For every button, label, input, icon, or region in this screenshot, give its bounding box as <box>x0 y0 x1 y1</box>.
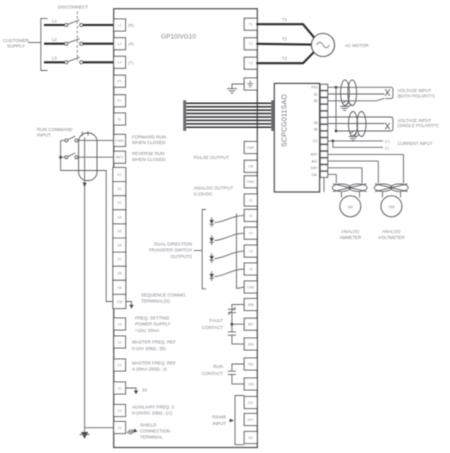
svg-text:GP10/VG10: GP10/VG10 <box>161 34 196 41</box>
option terminal label P10 <box>311 86 317 90</box>
junction fault common <box>230 323 233 326</box>
analog ammeter M2 <box>340 196 361 217</box>
svg-text:30B: 30B <box>248 303 255 307</box>
svg-text:T1: T1 <box>282 17 288 22</box>
wire output D4 to terminal <box>215 269 245 277</box>
terminal C1 (drive left, y=365.0) <box>114 359 126 371</box>
svg-text:L3: L3 <box>52 56 57 61</box>
label ANALOG VOLTMETER <box>378 229 405 240</box>
svg-text:ANALOGAMMETER: ANALOGAMMETER <box>339 229 361 240</box>
svg-text:Y5C: Y5C <box>247 362 254 366</box>
svg-text:L1: L1 <box>52 18 57 23</box>
terminal L1 (drive left, y=25.0) <box>114 19 126 31</box>
terminal N- (drive left, y=119.0) <box>114 113 126 125</box>
wire T2 to motor <box>256 43 312 46</box>
terminal 13 (drive left, y=324.0) <box>114 318 126 330</box>
svg-text:X9: X9 <box>117 286 121 290</box>
label T1 <box>282 17 288 22</box>
wire run-command common to terminal CM <box>61 171 113 302</box>
wire terminal G to earth <box>232 84 244 88</box>
svg-text:33: 33 <box>142 388 147 393</box>
svg-text:CM: CM <box>117 300 123 304</box>
terminal Y4 (drive right, y=269.0) <box>244 263 257 275</box>
switch run FWD <box>65 136 78 142</box>
terminal X3 (drive left, y=202.8) <box>113 196 126 210</box>
option terminal t10 <box>320 145 327 151</box>
wire to voltmeter terminal left <box>382 192 384 198</box>
wire T1 to motor <box>256 24 314 37</box>
svg-text:(R): (R) <box>128 23 134 28</box>
terminal X1 (drive left, y=174.6) <box>113 168 126 182</box>
svg-text:V2: V2 <box>117 409 121 413</box>
wire voltmeter left drop <box>377 161 379 183</box>
svg-text:X4: X4 <box>117 215 121 219</box>
terminal CM (drive right, y=166.3) <box>244 160 257 172</box>
svg-text:CME: CME <box>247 285 255 289</box>
wire REV switch to terminal REV <box>78 156 114 158</box>
disconnect switch pole L1 <box>65 20 83 27</box>
label RS485 INPUT <box>212 415 226 426</box>
svg-text:REVERSE RUNWHEN CLOSED: REVERSE RUNWHEN CLOSED <box>132 151 166 162</box>
terminal DX- (drive right, y=402.5) <box>244 397 257 409</box>
option terminal t4 <box>320 105 327 111</box>
svg-text:32: 32 <box>314 99 318 103</box>
label L3 <box>52 56 57 61</box>
svg-text:X5: X5 <box>117 229 121 233</box>
transfer switch output device D4 <box>209 271 214 281</box>
terminal T2 (drive right, y=43.8) <box>244 38 257 50</box>
terminal T1 (drive right, y=24.2) <box>244 18 257 30</box>
wire common tie vertical <box>335 87 337 131</box>
wire L3 disconnect to drive terminal <box>83 61 114 63</box>
cable oval terminal ticks <box>82 131 88 136</box>
wire L3 supply to disconnect <box>44 61 65 63</box>
cable 1 shield drain <box>342 100 352 107</box>
option terminal label 34 <box>314 128 318 132</box>
label SEQUENCE COMMON TERMINAL <box>141 293 187 304</box>
wire C1 to current input <box>328 140 383 142</box>
wire strip bottom to card edge <box>323 178 325 192</box>
terminal DX+ (drive right, y=419.5) <box>244 414 257 426</box>
earth ground at drive chassis <box>227 89 237 93</box>
junction on C1 wire <box>332 140 335 143</box>
label CURRENT INPUT <box>398 141 433 146</box>
terminal 12 (drive left, y=342.0) <box>114 336 126 348</box>
junction run command common <box>59 156 62 159</box>
terminal X2 (drive left, y=188.7) <box>113 182 126 196</box>
svg-text:DISCONNECT: DISCONNECT <box>58 5 89 10</box>
terminal G (drive right, y=84.0) <box>244 78 257 90</box>
svg-text:L1: L1 <box>118 23 122 27</box>
option terminal label 32 <box>314 99 318 103</box>
analog voltmeter M3 <box>381 196 402 217</box>
svg-text:DX-: DX- <box>248 401 254 405</box>
wire output D2 to terminal <box>215 233 245 240</box>
label DISCONNECT <box>58 5 89 10</box>
svg-text:CM: CM <box>248 165 253 169</box>
junction on return wire <box>335 130 338 133</box>
label VOLTAGE INPUT SINGLE POLARITY <box>398 118 440 128</box>
wire 33 loop top <box>328 116 391 118</box>
label REVERSE RUN WHEN CLOSED <box>132 151 166 162</box>
arrow symbol at CM terminal <box>126 302 134 309</box>
option terminal t5 <box>320 111 327 117</box>
terminal P+ (drive left, y=100.8) <box>114 95 126 107</box>
wire common to REV switch <box>61 156 65 158</box>
fault NC contact <box>228 307 236 324</box>
label AC MOTOR <box>345 43 369 48</box>
svg-text:AC MOTOR: AC MOTOR <box>345 43 369 48</box>
label DUAL DIRECTION TRANSFER SWITCH OUTPUTS <box>149 241 192 259</box>
wire 30B to contact <box>232 305 245 309</box>
label AUXILIARY FREQ 2 <box>132 404 175 415</box>
terminal 30C (drive right, y=324.2) <box>244 318 257 330</box>
label current plus <box>385 139 390 143</box>
terminal X6 (drive left, y=245.1) <box>113 238 126 252</box>
svg-text:Y4: Y4 <box>249 267 253 271</box>
svg-text:SCPCG011SAO: SCPCG011SAO <box>282 94 289 147</box>
svg-text:34: 34 <box>314 128 318 132</box>
svg-text:VOLTAGE INPUT(BOTH POLARITY): VOLTAGE INPUT(BOTH POLARITY) <box>398 88 436 98</box>
label T2 <box>282 37 288 42</box>
wire L1 supply to disconnect <box>44 24 65 26</box>
option card A1 outline <box>274 83 319 192</box>
wire FWD switch to terminal FWD <box>78 139 114 141</box>
svg-text:L2: L2 <box>118 42 122 46</box>
label CUSTOMER SUPPLY <box>3 38 30 49</box>
terminal X5 (drive left, y=231.0) <box>113 224 126 238</box>
terminal L3 (drive left, y=62.3) <box>114 56 126 68</box>
outputs grouping bracket <box>202 210 206 289</box>
phase annotation (R) <box>128 23 134 28</box>
wire AO+ to voltmeter right <box>328 153 404 155</box>
label ANALOG OUTPUT <box>194 185 234 196</box>
wire contact to 30A <box>232 343 245 345</box>
terminal 30A (drive right, y=344.0) <box>244 338 257 350</box>
wire outputs common to CME <box>237 287 245 289</box>
junction on P10 wire <box>335 86 338 89</box>
svg-text:P1: P1 <box>117 80 121 84</box>
wire to ammeter terminal right <box>359 192 361 198</box>
switch run REV <box>65 153 78 159</box>
terminal Y2 (drive right, y=233.2) <box>244 227 257 239</box>
svg-text:11: 11 <box>249 198 253 202</box>
svg-text:T1: T1 <box>249 23 253 27</box>
label MASTER FREQ REF current <box>132 360 176 371</box>
svg-text:CA-: CA- <box>312 173 318 177</box>
svg-text:RS485INPUT: RS485INPUT <box>212 415 226 426</box>
label L1 <box>52 18 57 23</box>
svg-text:Y3: Y3 <box>249 250 253 254</box>
pointer to RS485 bracket <box>230 419 235 423</box>
wire drain into shield terminal 12 <box>85 427 114 429</box>
wire L2 disconnect to drive terminal <box>83 43 114 45</box>
svg-text:30C: 30C <box>248 323 255 327</box>
svg-text:11: 11 <box>118 386 122 390</box>
terminal X4 (drive left, y=216.9) <box>113 210 126 224</box>
wire T3 to motor <box>256 52 314 63</box>
svg-text:X2: X2 <box>117 187 121 191</box>
phase annotation (S) <box>128 41 134 46</box>
svg-text:Y5A: Y5A <box>247 382 254 386</box>
cable 2 shield drain <box>351 131 360 138</box>
svg-text:Y2: Y2 <box>249 232 253 236</box>
svg-text:AUXILIARY FREQ. 20-10VDC 20kΩ: AUXILIARY FREQ. 20-10VDC 20kΩ ; (A) <box>132 404 175 415</box>
label FREQ SETTING POWER SUPPLY <box>135 316 171 333</box>
terminal FMA (drive right, y=181.8) <box>244 176 257 188</box>
terminal Y1 (drive right, y=215.4) <box>244 209 257 221</box>
wire 34 to input arrow 2 <box>328 123 385 125</box>
svg-text:SD: SD <box>248 436 253 440</box>
wire current input return <box>333 141 383 147</box>
phase annotation (T) <box>128 60 134 65</box>
option terminal t8 <box>320 131 327 137</box>
option terminal t9 <box>320 138 327 144</box>
label MASTER FREQ REF voltage <box>132 340 176 351</box>
label RUN CONTACT <box>202 364 224 376</box>
wire L2 supply to disconnect <box>44 43 65 45</box>
option terminal t13 <box>320 165 327 171</box>
shielded cable oval around FWD/REV wires <box>79 133 97 181</box>
option terminal label AO+ <box>311 153 318 157</box>
terminal CME (drive right, y=287.0) <box>244 281 257 293</box>
terminal Y5A (drive right, y=384.0) <box>244 378 257 390</box>
wire cable shield drain to shield terminal <box>84 138 86 434</box>
svg-text:DX+: DX+ <box>247 418 254 422</box>
svg-text:31: 31 <box>314 92 318 96</box>
svg-text:(S): (S) <box>128 41 134 46</box>
shield twist glyph near terminal 12 <box>127 429 138 435</box>
option terminal t2 <box>320 91 327 97</box>
wire common to FWD switch <box>61 139 65 141</box>
input plug loop both polarity <box>385 87 393 98</box>
option terminal t11 <box>320 151 327 157</box>
svg-text:T3: T3 <box>282 56 288 61</box>
label current minus <box>385 146 390 150</box>
shield chassis marker near bottom <box>80 432 90 439</box>
svg-text:FMP: FMP <box>247 146 255 150</box>
wire CA- to ammeter left <box>328 173 337 175</box>
svg-text:T2: T2 <box>249 42 253 46</box>
wire run contact to Y5A <box>232 383 245 385</box>
input crossing glyph single polarity <box>385 123 390 130</box>
terminal 30B (drive right, y=304.5) <box>244 299 257 311</box>
terminal CM (drive left, y=301.4) <box>113 294 126 308</box>
disconnect mechanical linkage (dashed) <box>76 12 78 61</box>
svg-text:FWD: FWD <box>116 139 125 143</box>
svg-text:REV: REV <box>116 156 124 160</box>
label SHIELD CONNECTION TERMINAL <box>140 422 170 439</box>
option terminal t7 <box>320 125 327 131</box>
option terminal label 33 <box>314 121 318 125</box>
terminal 11 (drive right, y=200.0) <box>244 194 257 206</box>
svg-text:X8: X8 <box>117 272 121 276</box>
twisted shielded cable 1 <box>341 80 357 106</box>
terminal 12 (drive left, y=427.5) <box>114 422 126 434</box>
label FAULT CONTACT <box>202 318 224 330</box>
option terminal label CA+ <box>311 166 318 170</box>
label ANALOG AMMETER <box>339 229 361 240</box>
svg-text:CA+: CA+ <box>311 166 318 170</box>
svg-text:X3: X3 <box>117 201 121 205</box>
transfer switch output device D2 <box>209 235 214 245</box>
wire P10 loop top <box>328 86 391 88</box>
terminal FMP (drive right, y=147.5) <box>244 142 257 154</box>
svg-text:30A: 30A <box>248 342 255 346</box>
svg-text:T2: T2 <box>282 37 288 42</box>
wire to voltmeter terminal right <box>400 192 402 198</box>
svg-text:(+): (+) <box>385 139 390 143</box>
customer supply bracket <box>41 19 48 71</box>
terminal L2 (drive left, y=43.7) <box>114 38 126 50</box>
transfer switch output device D1 <box>209 217 214 227</box>
disconnect switch pole L2 <box>65 39 83 46</box>
option terminal t14 <box>320 171 327 177</box>
svg-text:12: 12 <box>118 426 122 430</box>
label 33 tie point <box>142 388 147 393</box>
label VOLTAGE INPUT BOTH POLARITY <box>398 88 436 98</box>
wire run-command common vertical <box>60 140 62 170</box>
terminal V2 (drive left, y=410.5) <box>114 405 126 417</box>
arrow symbol at terminal 11 to 33 <box>126 388 139 394</box>
svg-text:L2: L2 <box>52 37 57 42</box>
svg-text:P+: P+ <box>117 99 122 103</box>
svg-text:AO-: AO- <box>311 159 317 163</box>
terminal T3 (drive right, y=63.2) <box>244 57 257 69</box>
ribbon cable drive to option card <box>183 100 274 131</box>
wire 32 to input arrow <box>328 98 385 100</box>
option terminal label C1 <box>313 139 317 143</box>
twisted pair to ammeter <box>332 184 367 192</box>
terminal 11 (drive left, y=388.0) <box>114 382 126 394</box>
wire output D3 to terminal <box>215 251 245 258</box>
option card model label SCPCG011SAO <box>282 94 289 147</box>
svg-text:Y1: Y1 <box>249 214 253 218</box>
wire CA+ to ammeter right <box>328 167 362 169</box>
terminal P1 (drive left, y=81.2) <box>114 75 126 87</box>
input crossing glyph both polarity <box>385 89 390 96</box>
svg-text:AO+: AO+ <box>311 153 318 157</box>
earth ground cable 2 <box>349 136 358 140</box>
terminal X9 (drive left, y=287.4) <box>113 280 126 294</box>
label FORWARD RUN WHEN CLOSED <box>132 134 166 145</box>
wire 31 to input arrow <box>328 93 385 95</box>
option terminal label CA- <box>312 173 318 177</box>
svg-text:CURRENT INPUT: CURRENT INPUT <box>398 141 433 146</box>
RS485 grouping bracket <box>235 396 244 445</box>
terminal FWD (drive left, y=140.4) <box>114 134 126 146</box>
label RUN COMMAND INPUT <box>37 127 73 138</box>
svg-text:C1: C1 <box>117 363 122 367</box>
svg-text:FMA: FMA <box>247 180 255 184</box>
option terminal t3 <box>320 98 327 104</box>
svg-text:33: 33 <box>314 121 318 125</box>
terminal X8 (drive left, y=273.2) <box>113 266 126 280</box>
input plug loop single polarity <box>336 117 393 131</box>
pointer customer supply to bracket <box>28 42 41 44</box>
twisted shielded cable 2 <box>349 112 367 137</box>
svg-text:L3: L3 <box>118 61 122 65</box>
terminal SD (drive right, y=437.5) <box>244 432 257 444</box>
svg-text:X7: X7 <box>117 258 121 262</box>
wire ammeter left drop <box>335 174 337 183</box>
pointer to outputs bracket <box>194 250 202 252</box>
option terminal t12 <box>320 158 327 164</box>
AC motor M1 <box>312 34 335 57</box>
wire AO- to voltmeter left <box>328 160 379 162</box>
label T3 <box>282 56 288 61</box>
twisted pair to voltmeter <box>374 184 408 192</box>
svg-text:13: 13 <box>118 322 122 326</box>
svg-text:IM: IM <box>348 204 353 209</box>
svg-text:T3: T3 <box>249 62 253 66</box>
svg-text:C1: C1 <box>313 139 317 143</box>
option terminal label 31 <box>314 92 318 96</box>
drive unit U1 outline GP10/VG10 <box>114 9 258 448</box>
option terminal label AO- <box>311 159 317 163</box>
label L2 <box>52 37 57 42</box>
shield drain pick-off marker <box>83 183 87 188</box>
wire output D1 to terminal <box>215 215 245 222</box>
wire outputs common vertical <box>236 214 238 289</box>
wire contact common to 30C <box>232 323 245 325</box>
option terminal t6 <box>320 118 327 124</box>
svg-text:VM: VM <box>388 204 395 209</box>
terminal REV (drive left, y=157.2) <box>114 151 126 163</box>
ground glyph inside terminal G <box>247 81 253 88</box>
wire L1 disconnect to drive terminal <box>83 24 114 26</box>
wire voltmeter right drop <box>403 154 405 183</box>
svg-text:(T): (T) <box>128 60 134 65</box>
disconnect switch pole L3 <box>65 57 83 64</box>
terminal Y3 (drive right, y=251.1) <box>244 245 257 257</box>
earth ground cable 1 <box>340 106 349 110</box>
svg-text:X1: X1 <box>117 173 121 177</box>
svg-text:FORWARD RUNWHEN CLOSED: FORWARD RUNWHEN CLOSED <box>132 134 166 145</box>
drive model label GP10/VG10 <box>161 34 196 41</box>
transfer switch output device D3 <box>209 253 214 263</box>
svg-text:12: 12 <box>118 340 122 344</box>
wire Y5C to run contact <box>232 364 245 371</box>
terminal Y5C (drive right, y=364.0) <box>244 358 257 370</box>
svg-text:PULSE OUTPUT: PULSE OUTPUT <box>194 155 229 160</box>
fault NO contact <box>228 324 236 344</box>
run NO contact <box>228 371 236 384</box>
terminal X7 (drive left, y=259.1) <box>113 252 126 266</box>
wire to ammeter terminal left <box>341 192 343 198</box>
svg-text:P10: P10 <box>311 86 317 90</box>
option terminal t1 <box>320 84 327 90</box>
label PULSE OUTPUT <box>194 155 229 160</box>
wire ammeter right drop <box>361 168 363 184</box>
svg-text:X6: X6 <box>117 244 121 248</box>
